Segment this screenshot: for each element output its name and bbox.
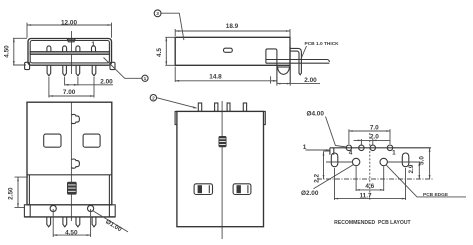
- centerline C: [221, 101, 223, 239]
- hole right C bar: [237, 185, 241, 193]
- pin B 2: [63, 217, 67, 227]
- svg-text:7.0: 7.0: [370, 125, 379, 132]
- dim 11.7: [335, 168, 406, 200]
- svg-text:5.0: 5.0: [418, 156, 425, 165]
- pcb thick leader: [301, 46, 307, 59]
- top seam notch: [67, 39, 75, 42]
- dim 4.50 B: [53, 209, 90, 237]
- body B: [27, 102, 112, 205]
- peg row line right: [387, 161, 420, 163]
- pin hole 3: [359, 145, 365, 151]
- dim 2.9: [418, 162, 420, 179]
- bottom line B: [24, 216, 115, 218]
- peg circle left: [50, 205, 56, 211]
- contact 1: [47, 46, 51, 52]
- body: [175, 37, 290, 65]
- pin hole 1: [387, 145, 393, 151]
- svg-text:2.00: 2.00: [100, 78, 113, 85]
- dim 7.00: [49, 77, 94, 98]
- latch tab lower: [71, 159, 79, 168]
- balloon 3: [154, 10, 161, 17]
- hole right C line: [247, 185, 249, 193]
- svg-text:4: 4: [349, 150, 353, 157]
- pcb edge line: [330, 147, 431, 149]
- hole left C line: [208, 185, 210, 193]
- svg-text:18.9: 18.9: [226, 23, 239, 30]
- pin C2: [215, 103, 218, 111]
- big hole left: [352, 158, 359, 165]
- shell outer: [28, 39, 112, 66]
- shell inner: [30, 41, 109, 63]
- svg-text:Ø4.00: Ø4.00: [307, 111, 325, 118]
- centerline front view: [71, 31, 73, 74]
- slot left ticks: [330, 148, 334, 155]
- ear left C: [175, 111, 177, 124]
- svg-text:4.50: 4.50: [65, 229, 78, 236]
- svg-text:2: 2: [152, 96, 155, 102]
- inner wall left: [28, 175, 30, 205]
- pin B 3: [76, 217, 80, 227]
- peg: [266, 49, 290, 83]
- balloon 1 leader: [104, 58, 142, 79]
- center dotted: [369, 133, 371, 201]
- peg row line left: [326, 161, 352, 163]
- dim 18.9: [175, 29, 290, 47]
- right ear: [110, 62, 115, 69]
- pin hole 4: [346, 145, 352, 151]
- left ear: [25, 62, 30, 69]
- svg-text:7.00: 7.00: [63, 89, 76, 96]
- dim 4.6: [356, 166, 384, 191]
- pin B 4: [92, 217, 96, 227]
- svg-text:4.5: 4.5: [156, 48, 163, 57]
- slot left: [331, 153, 338, 167]
- svg-text:2.9: 2.9: [408, 164, 415, 173]
- tongue: [30, 52, 109, 55]
- dim 4.50: [13, 38, 27, 65]
- svg-text:RECOMMENDED PCB LAYOUT: RECOMMENDED PCB LAYOUT: [334, 220, 411, 226]
- dim 2.0: [354, 139, 390, 145]
- pcb edge leader: [386, 165, 466, 197]
- svg-text:2.2: 2.2: [313, 174, 320, 183]
- svg-text:2.0: 2.0: [370, 134, 379, 141]
- hole left B: [44, 134, 61, 147]
- svg-text:14.8: 14.8: [209, 74, 222, 81]
- svg-text:2.50: 2.50: [8, 187, 15, 200]
- pin B 1: [47, 217, 51, 227]
- contact 3: [76, 46, 80, 52]
- pin 2: [63, 65, 67, 76]
- dim 14.8: [175, 67, 277, 83]
- corner peg left: [24, 205, 30, 217]
- step line: [27, 174, 112, 176]
- dia 2.00 leader: [314, 165, 354, 189]
- peg hatch: [277, 66, 290, 68]
- balloon 3 leader: [161, 13, 184, 40]
- pin 3: [76, 65, 80, 76]
- slot: [224, 48, 233, 52]
- peg circle right: [88, 205, 94, 211]
- svg-text:PCB EDGE: PCB EDGE: [423, 192, 449, 198]
- inner wall right: [108, 175, 110, 205]
- dim 2.00: [65, 77, 113, 86]
- svg-text:Ø2.00: Ø2.00: [301, 190, 319, 197]
- pin C3: [227, 103, 230, 111]
- dia 1.00 leader: [93, 211, 128, 232]
- balloon 2: [150, 95, 156, 101]
- balloon 2 leader: [157, 98, 197, 108]
- svg-text:1: 1: [144, 76, 147, 82]
- dim 2.00 peg: [271, 76, 320, 86]
- corner peg right: [109, 205, 115, 217]
- svg-text:1: 1: [91, 41, 95, 48]
- pin C1: [198, 103, 201, 111]
- bent pin: [290, 48, 301, 74]
- pcb bottom: [266, 62, 330, 64]
- dim 4.5 side: [165, 37, 175, 65]
- svg-text:3: 3: [156, 11, 159, 17]
- centerline B: [70, 102, 72, 221]
- pin 4: [92, 65, 96, 76]
- dim 2.50: [15, 177, 29, 207]
- svg-text:12.00: 12.00: [61, 19, 77, 26]
- pcb top: [266, 60, 330, 63]
- body C: [177, 111, 264, 226]
- pin C4: [243, 103, 246, 111]
- svg-text:4.50: 4.50: [4, 45, 11, 58]
- slot right: [402, 153, 409, 167]
- pin hole 2: [370, 145, 376, 151]
- contact 2: [63, 46, 67, 52]
- hole left C: [194, 184, 212, 195]
- dia 4.00 leader: [326, 117, 347, 148]
- dim 2.2: [324, 151, 331, 179]
- dim 7.0: [349, 129, 390, 144]
- ear right C: [264, 111, 266, 124]
- contact 4: [92, 46, 96, 52]
- pcb edge: [265, 60, 267, 64]
- dim 5.0: [429, 148, 431, 179]
- svg-text:4.6: 4.6: [365, 183, 374, 190]
- contact block B: [67, 182, 77, 195]
- svg-text:1: 1: [392, 150, 396, 157]
- latch tab upper: [71, 114, 79, 123]
- svg-text:2.00: 2.00: [304, 77, 317, 84]
- contact block C: [219, 136, 227, 147]
- svg-text:PCB 1.0 THICK: PCB 1.0 THICK: [305, 41, 340, 47]
- chain line: [317, 178, 434, 180]
- svg-text:11.7: 11.7: [359, 192, 372, 199]
- big hole right: [380, 158, 387, 165]
- dim 1: [306, 149, 330, 151]
- hole left C bar: [198, 185, 202, 193]
- svg-text:1: 1: [303, 144, 307, 151]
- pin 1: [47, 65, 51, 76]
- hole right B: [83, 134, 100, 147]
- hole right C: [233, 184, 251, 195]
- dim 12.00: [27, 23, 112, 38]
- balloon 1: [142, 75, 148, 81]
